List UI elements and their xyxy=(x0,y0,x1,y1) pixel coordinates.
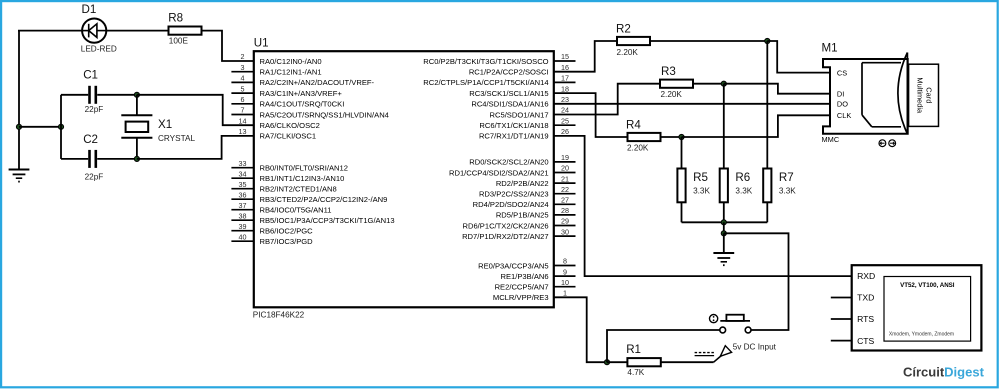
svg-text:C2: C2 xyxy=(83,133,98,146)
pin 34 RB1/INT1/C12IN3-/AN10 xyxy=(231,169,344,183)
pin 17 RC2/CTPLS/P1A/CCP1/T5CKI/AN14 xyxy=(423,74,575,88)
svg-text:30: 30 xyxy=(561,227,569,236)
wire R2 to CS node xyxy=(650,40,767,42)
svg-text:RE2/CCP5/AN7: RE2/CCP5/AN7 xyxy=(495,283,549,292)
svg-text:29: 29 xyxy=(561,217,569,226)
svg-text:R4: R4 xyxy=(626,118,641,131)
pin 39 RB6/IOC2/PGC xyxy=(231,222,313,236)
pin 13 RA7/CLKI/OSC1 xyxy=(239,127,317,141)
svg-text:15: 15 xyxy=(561,52,569,61)
svg-text:RB0/INT0/FLT0/SRI/AN12: RB0/INT0/FLT0/SRI/AN12 xyxy=(260,164,348,173)
svg-text:3.3K: 3.3K xyxy=(779,187,796,196)
svg-text:X1: X1 xyxy=(158,118,172,131)
svg-text:20: 20 xyxy=(561,164,569,173)
pin 36 RB3/CTED2/P2A/CCP2/C12IN2-/AN9 xyxy=(231,190,387,204)
svg-text:RC6/TX1/CK1/AN18: RC6/TX1/CK1/AN18 xyxy=(479,121,548,130)
wire LED to R8 xyxy=(106,30,168,32)
svg-text:CS: CS xyxy=(837,68,847,77)
svg-text:C1: C1 xyxy=(83,69,98,82)
svg-text:8: 8 xyxy=(563,257,567,266)
svg-text:RB7/IOC3/PGD: RB7/IOC3/PGD xyxy=(260,237,314,246)
wire R8 to pin 2 RA0 xyxy=(202,31,254,61)
svg-text:RD1/CCP4/SDI2/SDA2/AN21: RD1/CCP4/SDI2/SDA2/AN21 xyxy=(449,168,549,177)
label Multimedia Card xyxy=(916,77,934,114)
wire ground node down xyxy=(723,233,725,253)
pin 35 RB2/INT2/CTED1/AN8 xyxy=(231,180,336,194)
pin 1 MCLR/VPP/RE3 xyxy=(493,289,567,303)
resistor R1 xyxy=(627,358,660,366)
pin 10 RE2/CCP5/AN7 xyxy=(495,278,576,292)
5v DC input symbol xyxy=(695,346,732,363)
pin 25 RC6/TX1/CK1/AN18 xyxy=(479,116,575,130)
node junction R4/R5/CLK xyxy=(679,134,684,139)
svg-text:RD4/P2D/SDO2/AN24: RD4/P2D/SDO2/AN24 xyxy=(473,200,549,209)
svg-text:RC5/SDO1/AN17: RC5/SDO1/AN17 xyxy=(490,110,549,119)
svg-text:RC7/RX1/DT1/AN19: RC7/RX1/DT1/AN19 xyxy=(479,132,549,141)
svg-text:RC3/SCK1/SCL1/AN15: RC3/SCK1/SCL1/AN15 xyxy=(469,89,548,98)
svg-text:RB3/CTED2/P2A/CCP2/C12IN2-/AN9: RB3/CTED2/P2A/CCP2/C12IN2-/AN9 xyxy=(260,195,388,204)
wire pin24 RC5/SDO1 to R3 xyxy=(554,84,660,115)
svg-text:22: 22 xyxy=(561,185,569,194)
Multimedia Card label box xyxy=(909,64,939,126)
svg-text:RA2/C2IN+/AN2/DACOUT/VREF-: RA2/C2IN+/AN2/DACOUT/VREF- xyxy=(260,78,375,87)
svg-text:LED-RED: LED-RED xyxy=(81,44,117,53)
svg-text:18: 18 xyxy=(561,84,569,93)
svg-text:MCLR/VPP/RE3: MCLR/VPP/RE3 xyxy=(493,293,549,302)
pin 3 RA1/C12IN1-/AN1 xyxy=(231,63,321,77)
svg-text:VT52, VT100, ANSI: VT52, VT100, ANSI xyxy=(900,282,955,289)
crystal X1 xyxy=(121,95,152,159)
svg-text:RB5/IOC1/P3A/CCP3/T3CKI/T1G/AN: RB5/IOC1/P3A/CCP3/T3CKI/T1G/AN13 xyxy=(260,216,395,225)
pin 4 RA2/C2IN+/AN2/DACOUT/VREF- xyxy=(231,74,374,88)
svg-text:RA4/C1OUT/SRQ/T0CKI: RA4/C1OUT/SRQ/T0CKI xyxy=(260,100,345,109)
svg-text:RA3/C1IN+/AN3/VREF+: RA3/C1IN+/AN3/VREF+ xyxy=(260,89,343,98)
svg-text:RB6/IOC2/PGC: RB6/IOC2/PGC xyxy=(260,227,314,236)
wire R3 to DI node xyxy=(693,83,724,85)
wire C1 rail to OSC2 pin14 xyxy=(137,95,254,125)
resistor R3 xyxy=(660,80,693,88)
svg-text:D1: D1 xyxy=(82,3,97,16)
wire node down to R7 xyxy=(766,41,768,169)
svg-text:R6: R6 xyxy=(735,171,750,184)
svg-text:MMC: MMC xyxy=(822,135,840,144)
svg-text:CírcuitDigest: CírcuitDigest xyxy=(903,365,985,380)
terminal screen xyxy=(884,277,971,342)
svg-text:CRYSTAL: CRYSTAL xyxy=(158,134,195,143)
svg-text:33: 33 xyxy=(239,159,247,168)
wire node to MMC CLK xyxy=(682,115,831,137)
pin RTS stub xyxy=(831,318,852,320)
svg-text:RD2/P2B/AN22: RD2/P2B/AN22 xyxy=(496,179,549,188)
svg-text:2.20K: 2.20K xyxy=(661,90,683,99)
svg-text:22pF: 22pF xyxy=(85,105,104,114)
card eject arrows xyxy=(879,140,896,147)
capacitor C2 xyxy=(61,150,137,168)
svg-text:16: 16 xyxy=(561,63,569,72)
svg-text:R5: R5 xyxy=(693,171,708,184)
svg-text:CTS: CTS xyxy=(857,336,874,346)
svg-text:25: 25 xyxy=(561,116,569,125)
resistor R6 xyxy=(720,169,728,203)
node junction C2 / crystal bottom xyxy=(134,156,139,161)
svg-text:R8: R8 xyxy=(168,12,183,25)
pin TXD stub xyxy=(831,297,852,299)
svg-text:9: 9 xyxy=(563,267,567,276)
svg-text:R7: R7 xyxy=(779,171,794,184)
wire R5 bottom to rail xyxy=(681,202,683,222)
pin 8 RE0/P3A/CCP3/AN5 xyxy=(478,257,575,271)
svg-text:RC0/P2B/T3CKI/T3G/T1CKI/SOSCO: RC0/P2B/T3CKI/T3G/T1CKI/SOSCO xyxy=(423,57,548,66)
resistor R7 xyxy=(763,169,771,203)
wire pin26 RC7/RX1 to terminal RXD xyxy=(554,136,852,276)
svg-text:14: 14 xyxy=(239,116,247,125)
pin 7 RA5/C2OUT/SRNQ/SS1/HLVDIN/AN4 xyxy=(231,106,389,120)
svg-text:RA0/C12IN0-/AN0: RA0/C12IN0-/AN0 xyxy=(260,57,322,66)
wire rail to C1C2 column xyxy=(19,126,61,128)
wire R7 bottom to rail xyxy=(766,202,768,222)
svg-text:RE0/P3A/CCP3/AN5: RE0/P3A/CCP3/AN5 xyxy=(478,261,548,270)
svg-text:21: 21 xyxy=(561,174,569,183)
pin 5 RA3/C1IN+/AN3/VREF+ xyxy=(231,84,342,98)
node junction C1 / crystal top xyxy=(134,92,139,97)
pin 38 RB5/IOC1/P3A/CCP3/T3CKI/T1G/AN13 xyxy=(231,211,394,225)
wire C2 rail to OSC1 pin13 xyxy=(137,136,254,159)
wire ground node to button right xyxy=(724,233,789,330)
svg-text:28: 28 xyxy=(561,206,569,215)
svg-text:38: 38 xyxy=(239,211,247,220)
svg-text:24: 24 xyxy=(561,106,569,115)
svg-text:27: 27 xyxy=(561,196,569,205)
svg-text:R2: R2 xyxy=(616,23,631,36)
svg-text:RB2/INT2/CTED1/AN8: RB2/INT2/CTED1/AN8 xyxy=(260,185,337,194)
wire pin23 RC4/SDI1 to MMC DO xyxy=(554,103,830,105)
svg-text:R3: R3 xyxy=(661,65,676,78)
pin 16 RC1/P2A/CCP2/SOSCI xyxy=(469,63,569,77)
wire node up to button left xyxy=(607,330,720,362)
svg-text:RD5/P1B/AN25: RD5/P1B/AN25 xyxy=(496,211,549,220)
svg-text:40: 40 xyxy=(239,232,247,241)
pin 24 RC5/SDO1/AN17 xyxy=(490,106,569,120)
wire VDD rail top to LED anode xyxy=(18,30,82,32)
wire C1-C2 left vertical xyxy=(60,95,62,159)
svg-text:39: 39 xyxy=(239,222,247,231)
svg-text:2.20K: 2.20K xyxy=(617,48,639,57)
ground left xyxy=(9,170,30,182)
node junction left rail / cap wire xyxy=(16,124,21,129)
svg-text:RA1/C12IN1-/AN1: RA1/C12IN1-/AN1 xyxy=(260,68,322,77)
pin 19 RD0/SCK2/SCL2/AN20 xyxy=(469,153,575,167)
op-amp U1 PIC18F46K22 body xyxy=(254,51,554,307)
svg-text:4: 4 xyxy=(241,74,245,83)
svg-text:37: 37 xyxy=(239,201,247,210)
pin 23 RC4/SDI1/SDA1/AN16 xyxy=(471,95,569,109)
svg-text:RB4/IOC0/T5G/AN11: RB4/IOC0/T5G/AN11 xyxy=(260,206,332,215)
svg-text:5v DC Input: 5v DC Input xyxy=(733,342,777,351)
svg-text:4.7K: 4.7K xyxy=(627,368,644,377)
svg-text:CLK: CLK xyxy=(837,111,851,120)
MMC card shape xyxy=(862,53,907,134)
wire pulldown bottom rail xyxy=(682,221,768,223)
svg-text:RC4/SDI1/SDA1/AN16: RC4/SDI1/SDA1/AN16 xyxy=(471,100,548,109)
svg-text:RD3/P2C/SS2/AN23: RD3/P2C/SS2/AN23 xyxy=(479,190,549,199)
svg-text:10: 10 xyxy=(561,278,569,287)
pin 9 RE1/P3B/AN6 xyxy=(500,267,575,281)
wire node down to R6 xyxy=(723,84,725,169)
pin 22 RD3/P2C/SS2/AN23 xyxy=(479,185,576,199)
svg-text:RA5/C2OUT/SRNQ/SS1/HLVDIN/AN4: RA5/C2OUT/SRNQ/SS1/HLVDIN/AN4 xyxy=(260,110,389,119)
svg-text:6: 6 xyxy=(241,95,245,104)
svg-text:2.20K: 2.20K xyxy=(627,144,649,153)
node junction R3/R6/DI xyxy=(721,81,726,86)
svg-text:RD7/P1D/RX2/DT2/AN27: RD7/P1D/RX2/DT2/AN27 xyxy=(462,232,549,241)
MMC socket M1 body xyxy=(823,59,908,134)
svg-text:100E: 100E xyxy=(169,36,189,45)
pin CTS stub xyxy=(831,340,852,342)
svg-text:RC1/P2A/CCP2/SOSCI: RC1/P2A/CCP2/SOSCI xyxy=(469,68,549,77)
svg-text:5: 5 xyxy=(241,84,245,93)
svg-text:3: 3 xyxy=(241,63,245,72)
pin 30 RD7/P1D/RX2/DT2/AN27 xyxy=(462,227,575,241)
node junction ground/button branch xyxy=(721,231,726,236)
resistor R8 xyxy=(169,27,202,35)
push button xyxy=(710,315,751,333)
wire left rail vertical xyxy=(18,31,20,170)
svg-text:DO: DO xyxy=(837,100,848,109)
svg-text:34: 34 xyxy=(239,169,247,178)
svg-text:R1: R1 xyxy=(626,343,641,356)
wire node to R1 xyxy=(607,361,627,363)
svg-text:1: 1 xyxy=(563,289,567,298)
wire pin18 RC3/SCK1 to R4 xyxy=(554,93,628,137)
svg-text:TXD: TXD xyxy=(857,293,874,303)
pin 18 RC3/SCK1/SCL1/AN15 xyxy=(469,84,569,98)
wire rail to ground node xyxy=(723,222,725,233)
pin 27 RD4/P2D/SDO2/AN24 xyxy=(473,196,576,210)
svg-text:Multimedia: Multimedia xyxy=(916,77,925,114)
svg-text:26: 26 xyxy=(561,127,569,136)
pin 29 RD6/P1C/TX2/CK2/AN26 xyxy=(462,217,575,231)
svg-text:M1: M1 xyxy=(822,42,838,55)
svg-text:RA7/CLKI/OSC1: RA7/CLKI/OSC1 xyxy=(260,132,317,141)
pin 33 RB0/INT0/FLT0/SRI/AN12 xyxy=(231,159,348,173)
pin 21 RD2/P2B/AN22 xyxy=(496,174,576,188)
svg-text:36: 36 xyxy=(239,190,247,199)
svg-text:RTS: RTS xyxy=(857,314,874,324)
pin 40 RB7/IOC3/PGD xyxy=(231,232,313,246)
svg-text:RD0/SCK2/SCL2/AN20: RD0/SCK2/SCL2/AN20 xyxy=(469,158,548,167)
ground right xyxy=(713,253,734,265)
pin 37 RB4/IOC0/T5G/AN11 xyxy=(231,201,331,215)
pin 28 RD5/P1B/AN25 xyxy=(496,206,576,220)
svg-text:35: 35 xyxy=(239,180,247,189)
svg-text:Xmodem, Ymodem, Zmodem: Xmodem, Ymodem, Zmodem xyxy=(889,332,954,338)
node junction MCLR/R1/button xyxy=(604,360,609,365)
resistor R5 xyxy=(677,169,685,203)
pin 2 RA0/C12IN0-/AN0 xyxy=(241,52,322,66)
svg-text:22pF: 22pF xyxy=(85,172,104,181)
svg-text:19: 19 xyxy=(561,153,569,162)
pin 14 RA6/CLKO/OSC2 xyxy=(239,116,320,130)
svg-text:7: 7 xyxy=(241,106,245,115)
svg-text:3.3K: 3.3K xyxy=(735,187,752,196)
wire node to MMC DI xyxy=(724,84,830,94)
svg-text:U1: U1 xyxy=(254,37,269,50)
pin 26 RC7/RX1/DT1/AN19 xyxy=(479,127,569,141)
wire node to MMC CS xyxy=(767,41,830,73)
pin 6 RA4/C1OUT/SRQ/T0CKI xyxy=(231,95,344,109)
wire R6 bottom to rail xyxy=(723,202,725,222)
pin 20 RD1/CCP4/SDI2/SDA2/AN21 xyxy=(449,164,576,178)
svg-text:RE1/P3B/AN6: RE1/P3B/AN6 xyxy=(500,272,548,281)
svg-text:3.3K: 3.3K xyxy=(693,187,710,196)
svg-text:PIC18F46K22: PIC18F46K22 xyxy=(253,311,305,320)
svg-text:2: 2 xyxy=(241,52,245,61)
node junction rail/ground xyxy=(721,220,726,225)
svg-text:23: 23 xyxy=(561,95,569,104)
terminal body xyxy=(852,265,982,350)
svg-text:RA6/CLKO/OSC2: RA6/CLKO/OSC2 xyxy=(260,121,320,130)
resistor R2 xyxy=(617,37,650,45)
wire node down to R5 xyxy=(681,137,683,169)
svg-text:RD6/P1C/TX2/CK2/AN26: RD6/P1C/TX2/CK2/AN26 xyxy=(462,221,548,230)
capacitor C1 xyxy=(61,86,137,104)
wire R4 to CLK node xyxy=(661,136,682,138)
svg-text:17: 17 xyxy=(561,74,569,83)
svg-text:RB1/INT1/C12IN3-/AN10: RB1/INT1/C12IN3-/AN10 xyxy=(260,174,345,183)
wire pin16 RC1 to R2 xyxy=(554,41,617,72)
pin 15 RC0/P2B/T3CKI/T3G/T1CKI/SOSCO xyxy=(423,52,575,66)
LED D1 xyxy=(82,19,106,43)
svg-text:RXD: RXD xyxy=(857,271,875,281)
svg-text:13: 13 xyxy=(239,127,247,136)
resistor R4 xyxy=(628,133,661,141)
wire R1 to 5v input xyxy=(661,361,714,363)
wire pin1 MCLR down xyxy=(554,297,607,362)
svg-text:DI: DI xyxy=(837,90,844,99)
svg-text:Card: Card xyxy=(925,87,934,103)
svg-text:RC2/CTPLS/P1A/CCP1/T5CKI/AN14: RC2/CTPLS/P1A/CCP1/T5CKI/AN14 xyxy=(423,78,548,87)
node junction R2/R7/CS xyxy=(765,38,770,43)
